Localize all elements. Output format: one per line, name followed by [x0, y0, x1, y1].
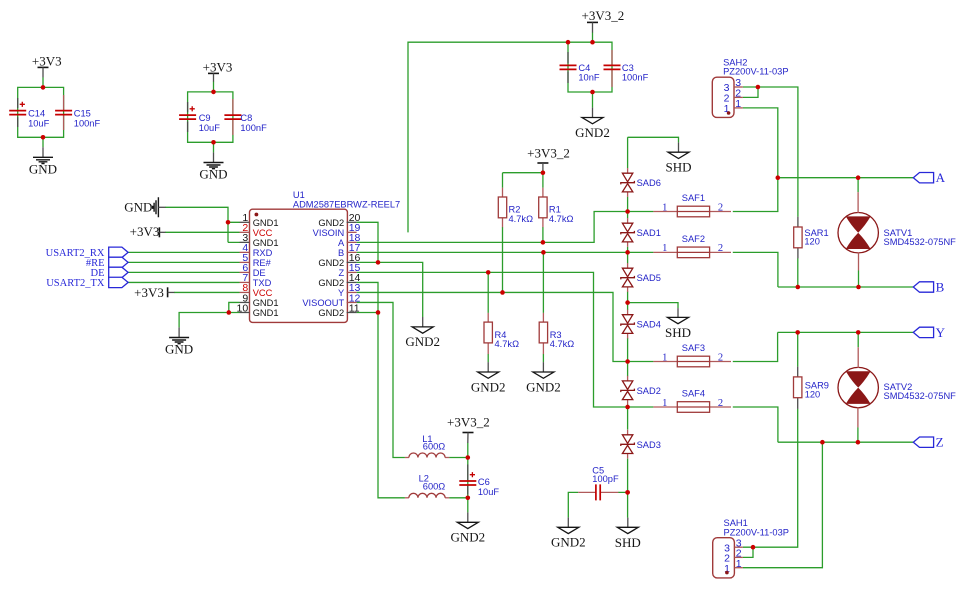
svg-text:100nF: 100nF	[622, 72, 649, 82]
wire C4/C3 box to GND2 stub	[592, 92, 594, 108]
TVS diode SAD5	[621, 263, 661, 292]
svg-text:SAD3: SAD3	[637, 440, 661, 450]
svg-text:SHD: SHD	[615, 535, 641, 550]
svg-text:600Ω: 600Ω	[423, 481, 446, 491]
resistor R2	[498, 188, 533, 228]
svg-text:SAD4: SAD4	[637, 320, 661, 330]
ground GND symbol	[29, 147, 57, 176]
wire SAF4 to net Z row	[733, 407, 778, 442]
wire SAF3 to net Y row	[733, 332, 778, 361]
svg-text:GND2: GND2	[526, 379, 561, 394]
svg-text:Y: Y	[338, 288, 344, 298]
wire net B: U1 pin 17 to SAD column / SAF2	[357, 251, 654, 253]
power flag +3V3_2 (top)	[582, 8, 625, 32]
fuse SAF4	[653, 388, 731, 412]
port USART2_RX	[46, 247, 128, 259]
svg-text:C9: C9	[199, 113, 211, 123]
svg-text:SAD6: SAD6	[637, 178, 661, 188]
svg-text:1: 1	[662, 398, 667, 409]
svg-text:1: 1	[736, 558, 742, 570]
wire USART2_RX to U1 pin 4	[128, 251, 239, 253]
wire R3 top to net B	[542, 252, 544, 313]
svg-text:ADM2587EBRWZ-REEL7: ADM2587EBRWZ-REEL7	[293, 200, 400, 210]
resistor R1	[539, 188, 574, 228]
svg-text:1: 1	[735, 98, 741, 110]
port USART2_TX	[46, 277, 128, 289]
wire +3V3 to U1 pin 8	[174, 291, 240, 293]
svg-text:GND1: GND1	[253, 298, 279, 308]
wire C4/C3 box	[568, 42, 612, 92]
svg-text:SAF3: SAF3	[682, 343, 705, 353]
wire GND1: flag to U1 pins 1,3	[165, 207, 240, 242]
wire U1 pins 9,10 to GND	[179, 302, 239, 327]
svg-text:USART2_TX: USART2_TX	[46, 278, 105, 289]
svg-text:GND1: GND1	[253, 238, 279, 248]
wire SAD column top to SHD	[628, 137, 679, 142]
svg-text:SHD: SHD	[665, 160, 691, 175]
junction dot R3 top	[541, 250, 546, 255]
wire VISOOUT: U1 pin 12 to L1	[357, 302, 468, 457]
wire +3V3_2 flag to L1/C6 junction	[467, 443, 469, 458]
port Z	[913, 435, 943, 450]
wire R4 bottom to GND2 stub	[487, 354, 489, 362]
junction dot pins9/10	[227, 310, 232, 315]
svg-text:SMD4532-075NF: SMD4532-075NF	[884, 391, 957, 401]
U1 pin 7 TXD	[240, 272, 272, 288]
wire SAF1 to SAH2 pin 1 and port A riser	[733, 108, 778, 212]
ground GND symbol	[199, 152, 227, 181]
wire SAF2 to net B row	[733, 252, 778, 287]
port #RE	[86, 257, 128, 269]
U1 pin 6 DE	[240, 262, 266, 278]
wire +3V3 rail C14/C15 box	[18, 77, 64, 137]
U1 pin 11 GND2	[318, 302, 359, 318]
svg-text:GND2: GND2	[575, 125, 610, 140]
svg-text:10: 10	[237, 302, 249, 314]
wire net Z row to port Z	[778, 441, 913, 443]
svg-text:VISOIN: VISOIN	[313, 228, 345, 238]
svg-text:SAF1: SAF1	[682, 193, 705, 203]
power flag +3V3_2 (C6)	[447, 414, 490, 443]
svg-text:GND2: GND2	[405, 334, 440, 349]
inductor L1	[405, 434, 449, 458]
fuse SAF2	[653, 234, 731, 258]
power flag +3V3 (U1 pin 8)	[134, 285, 174, 300]
junction dot SAH2 pins 2/3	[756, 85, 761, 90]
U1 pin 4 RXD	[240, 242, 273, 258]
ground GND2 symbol	[551, 517, 586, 549]
svg-text:GND: GND	[199, 167, 227, 182]
junction dot SAH1 pins 2/3	[751, 545, 756, 550]
svg-text:2: 2	[718, 202, 723, 213]
U1 pin 14 GND2	[318, 272, 360, 288]
resistor SAR9 120	[794, 367, 829, 409]
ground GND2 symbol	[471, 362, 506, 394]
U1 pin 10 GND1	[237, 302, 279, 318]
svg-text:A: A	[936, 170, 946, 185]
wire SAD5/SAD4 junction to SHD	[628, 303, 678, 309]
junction dots right side	[776, 175, 781, 180]
svg-text:100nF: 100nF	[74, 118, 101, 128]
svg-text:2: 2	[718, 243, 723, 254]
svg-text:Y: Y	[936, 325, 946, 340]
junction dots C9/C8 box	[211, 90, 216, 95]
SAH1 pin 1	[724, 558, 743, 575]
junction dot R4 top	[486, 270, 491, 275]
junction dot pins1/3	[226, 220, 231, 225]
resistor R4	[484, 313, 519, 354]
U1 pin 1 GND1	[240, 212, 279, 228]
connector SAH2 PZ200V-11-03P	[712, 57, 788, 117]
junction dots C4/C3	[566, 40, 571, 45]
svg-text:TXD: TXD	[253, 278, 272, 288]
port B	[913, 280, 944, 295]
TVS diode SAD3	[621, 430, 661, 459]
wire C6 to GND2 stub	[467, 498, 469, 513]
wire VISOIN riser U1 pin 19 to +3V3_2 rail	[408, 42, 568, 232]
svg-text:100nF: 100nF	[240, 123, 267, 133]
wire C5 left to GND2	[568, 492, 578, 517]
U1 pin 9 GND1	[240, 292, 279, 308]
svg-text:Z: Z	[936, 435, 944, 450]
svg-text:SAD5: SAD5	[637, 273, 661, 283]
SAH2 pin 1	[724, 98, 743, 115]
svg-text:10uF: 10uF	[28, 118, 50, 128]
wire +3V3 to U1 pin 2	[165, 231, 240, 233]
capacitor C14	[9, 98, 49, 128]
wire SATV1 leads green	[857, 178, 859, 287]
svg-text:4.7kΩ: 4.7kΩ	[495, 339, 520, 349]
svg-text:120: 120	[804, 237, 820, 247]
svg-text:C8: C8	[240, 113, 252, 123]
svg-text:1: 1	[662, 202, 667, 213]
svg-text:B: B	[936, 280, 945, 295]
svg-text:4.7kΩ: 4.7kΩ	[509, 214, 534, 224]
svg-text:VISOOUT: VISOOUT	[302, 298, 344, 308]
U1 pin 16 GND2	[318, 252, 360, 268]
capacitor C3	[604, 50, 649, 87]
U1 pin 15 Z	[339, 262, 361, 278]
capacitor C4	[560, 52, 600, 83]
capacitor C6	[459, 465, 499, 497]
junction dot +3V3_2 rail	[541, 170, 546, 175]
svg-text:+3V3_2: +3V3_2	[527, 146, 570, 161]
wire net A row to port A	[778, 177, 914, 179]
wire net Z: U1 pin 15 to SAF4	[357, 272, 654, 407]
svg-text:A: A	[338, 238, 345, 248]
U1 pin 19 VISOIN	[313, 222, 361, 238]
wire SAR1 bottom to net B row	[797, 258, 799, 287]
svg-text:120: 120	[805, 390, 821, 400]
wire C9/C8 box to GND stub	[213, 142, 215, 152]
wire DE to U1 pin 6	[128, 271, 239, 273]
svg-text:GND2: GND2	[318, 218, 344, 228]
svg-text:DE: DE	[253, 268, 266, 278]
U1 pin 18 A	[338, 232, 361, 248]
wire SAD column	[627, 137, 629, 492]
svg-text:GND2: GND2	[318, 278, 344, 288]
port DE	[91, 267, 129, 279]
svg-text:GND2: GND2	[450, 530, 485, 545]
svg-text:SAF4: SAF4	[682, 388, 705, 398]
svg-text:GND2: GND2	[471, 379, 506, 394]
wire USART2_TX to U1 pin 7	[128, 281, 239, 283]
port Y	[913, 325, 945, 340]
ground GND2 symbol	[526, 362, 561, 394]
svg-text:GND2: GND2	[318, 308, 344, 318]
svg-text:4.7kΩ: 4.7kΩ	[550, 339, 575, 349]
wire net B row to port B	[778, 286, 913, 288]
svg-text:RE#: RE#	[253, 258, 272, 268]
junction dot C5/SAD3	[625, 490, 630, 495]
wire C14/C15 box to GND stub	[42, 137, 44, 147]
wire GND2: U1 pins 20,16 to GND2 symbol	[357, 222, 423, 317]
svg-text:2: 2	[718, 398, 723, 409]
ground GND2 symbol	[450, 512, 485, 544]
power flag +3V3 (U1 pin 2)	[130, 224, 166, 239]
svg-text:10uF: 10uF	[199, 123, 221, 133]
wire SAR9 top to net Y row	[797, 332, 799, 366]
SAH1 pin 3	[724, 537, 743, 554]
wire SAH2 pins 3,2 tied to SAR1 top	[743, 87, 798, 217]
power flag +3V3 (C14/C15)	[32, 53, 62, 77]
surge arrester SATV1 SMD4532-075NF	[838, 213, 956, 253]
power flag SHD (bottom)	[615, 518, 641, 550]
U1 pin 17 B	[338, 242, 361, 258]
svg-text:C15: C15	[74, 109, 91, 119]
ground GND2 symbol	[575, 108, 610, 140]
svg-text:Z: Z	[339, 268, 345, 278]
svg-text:PZ200V-11-03P: PZ200V-11-03P	[723, 67, 788, 77]
wire SAD3 bottom / C5 to SHD	[618, 492, 628, 517]
svg-text:SAF2: SAF2	[682, 234, 705, 244]
svg-text:RXD: RXD	[253, 248, 273, 258]
SAH2 pin 3	[724, 77, 743, 94]
svg-text:C6: C6	[478, 477, 490, 487]
wire R4 top to net Z	[487, 272, 489, 313]
op-amp U1 ADM2587EBRWZ-REEL7 (isolated RS-485 transceiver)	[237, 190, 401, 322]
svg-text:GND: GND	[29, 162, 57, 177]
wire net Y row to port Y	[778, 331, 914, 333]
wire #RE to U1 pin 5	[128, 261, 239, 263]
capacitor C8	[224, 99, 267, 135]
U1 pin 12 VISOOUT	[302, 292, 360, 308]
svg-text:2: 2	[718, 352, 723, 363]
svg-text:600Ω: 600Ω	[423, 442, 446, 452]
surge arrester SATV2 SMD4532-075NF	[838, 367, 956, 407]
wire R3 bottom to GND2 stub	[542, 354, 544, 362]
svg-text:4.7kΩ: 4.7kΩ	[549, 214, 574, 224]
svg-text:GND1: GND1	[253, 308, 279, 318]
svg-text:C14: C14	[28, 109, 45, 119]
junction dots C14/C15 box	[41, 85, 46, 90]
capacitor C9	[179, 102, 220, 133]
capacitor C5	[578, 465, 619, 500]
svg-text:GND: GND	[124, 200, 152, 215]
U1 pin 13 Y	[338, 282, 361, 298]
svg-text:B: B	[338, 248, 344, 258]
svg-text:SAD2: SAD2	[637, 386, 661, 396]
svg-text:VCC: VCC	[253, 288, 273, 298]
svg-text:1: 1	[662, 243, 667, 254]
svg-text:+3V3_2: +3V3_2	[582, 8, 625, 23]
svg-text:+3V3: +3V3	[203, 60, 233, 75]
wire SAR9 bottom to SAH1 pins 3,2	[743, 409, 798, 558]
ground GND2 symbol	[405, 317, 440, 349]
U1 pin 8 VCC	[240, 282, 273, 298]
power flag GND sideways (U1 pin 1)	[124, 197, 165, 217]
resistor R3	[539, 313, 574, 354]
resistor SAR1 120	[794, 217, 829, 259]
U1 pin 3 GND1	[240, 232, 279, 248]
ground GND symbol	[165, 327, 193, 356]
svg-text:11: 11	[349, 302, 360, 314]
U1 pin 2 VCC	[240, 222, 273, 238]
svg-text:SHD: SHD	[665, 325, 691, 340]
TVS diode SAD4	[621, 310, 661, 339]
capacitor C15	[55, 95, 100, 130]
TVS diode SAD6	[621, 168, 661, 197]
svg-text:SAD1: SAD1	[637, 228, 661, 238]
port A	[913, 170, 945, 185]
connector SAH1 PZ200V-11-03P	[713, 518, 789, 578]
power flag +3V3 (C9/C8)	[203, 60, 233, 82]
power flag SHD (top)	[665, 142, 691, 174]
wire net Z to SAH1 pin 1	[743, 442, 823, 568]
wire +3V3_2 flag to C4/C3 box	[592, 32, 594, 42]
fuse SAF3	[653, 343, 731, 367]
svg-text:GND1: GND1	[253, 218, 279, 228]
wire C6 column	[467, 458, 469, 498]
junction dots C6	[466, 455, 471, 460]
svg-text:VCC: VCC	[253, 228, 273, 238]
svg-text:10uF: 10uF	[478, 487, 500, 497]
junction dots U1 right	[376, 260, 381, 265]
power flag +3V3_2 (R1/R2 rail)	[527, 146, 570, 171]
wire +3V3 rail C9/C8 box	[188, 82, 233, 143]
svg-text:GND2: GND2	[318, 258, 344, 268]
U1 pin 5 RE#	[240, 252, 272, 268]
svg-text:PZ200V-11-03P: PZ200V-11-03P	[724, 528, 789, 538]
svg-text:GND: GND	[165, 342, 193, 357]
TVS diode SAD2	[621, 376, 661, 405]
svg-text:GND2: GND2	[551, 535, 586, 550]
SAH1 pin 2	[724, 548, 743, 565]
TVS diode SAD1	[621, 218, 661, 247]
fuse SAF1	[653, 193, 731, 217]
svg-text:+3V3: +3V3	[130, 224, 160, 239]
svg-text:SMD4532-075NF: SMD4532-075NF	[884, 237, 957, 247]
svg-text:+3V3: +3V3	[134, 285, 164, 300]
junction dots SAD column	[625, 209, 630, 214]
svg-text:+3V3_2: +3V3_2	[447, 414, 490, 429]
wire +3V3_2 rail to R2,R1	[503, 170, 543, 188]
SATV1 lead adjustments	[857, 192, 859, 270]
wire R1 bottom to net A	[542, 227, 544, 242]
power flag SHD (mid)	[665, 308, 691, 340]
U1 pin 20 GND2	[318, 212, 360, 228]
wire R2 bottom to net Y	[502, 227, 504, 292]
junction dots R1/R2 bottoms	[541, 240, 546, 245]
svg-text:1: 1	[662, 352, 667, 363]
svg-text:+3V3: +3V3	[32, 53, 62, 68]
svg-text:100pF: 100pF	[592, 474, 619, 484]
wire SATV2 leads green	[857, 332, 859, 442]
wire net A: U1 pin 18 to SAD column / SAF1	[357, 212, 654, 243]
wire net Y: U1 pin 13 to SAF3	[357, 292, 654, 361]
inductor L2	[405, 474, 449, 498]
wire GND2: U1 pins 14,11 to L2	[357, 282, 468, 497]
SAH2 pin 2	[724, 88, 743, 105]
svg-text:10nF: 10nF	[578, 72, 600, 82]
